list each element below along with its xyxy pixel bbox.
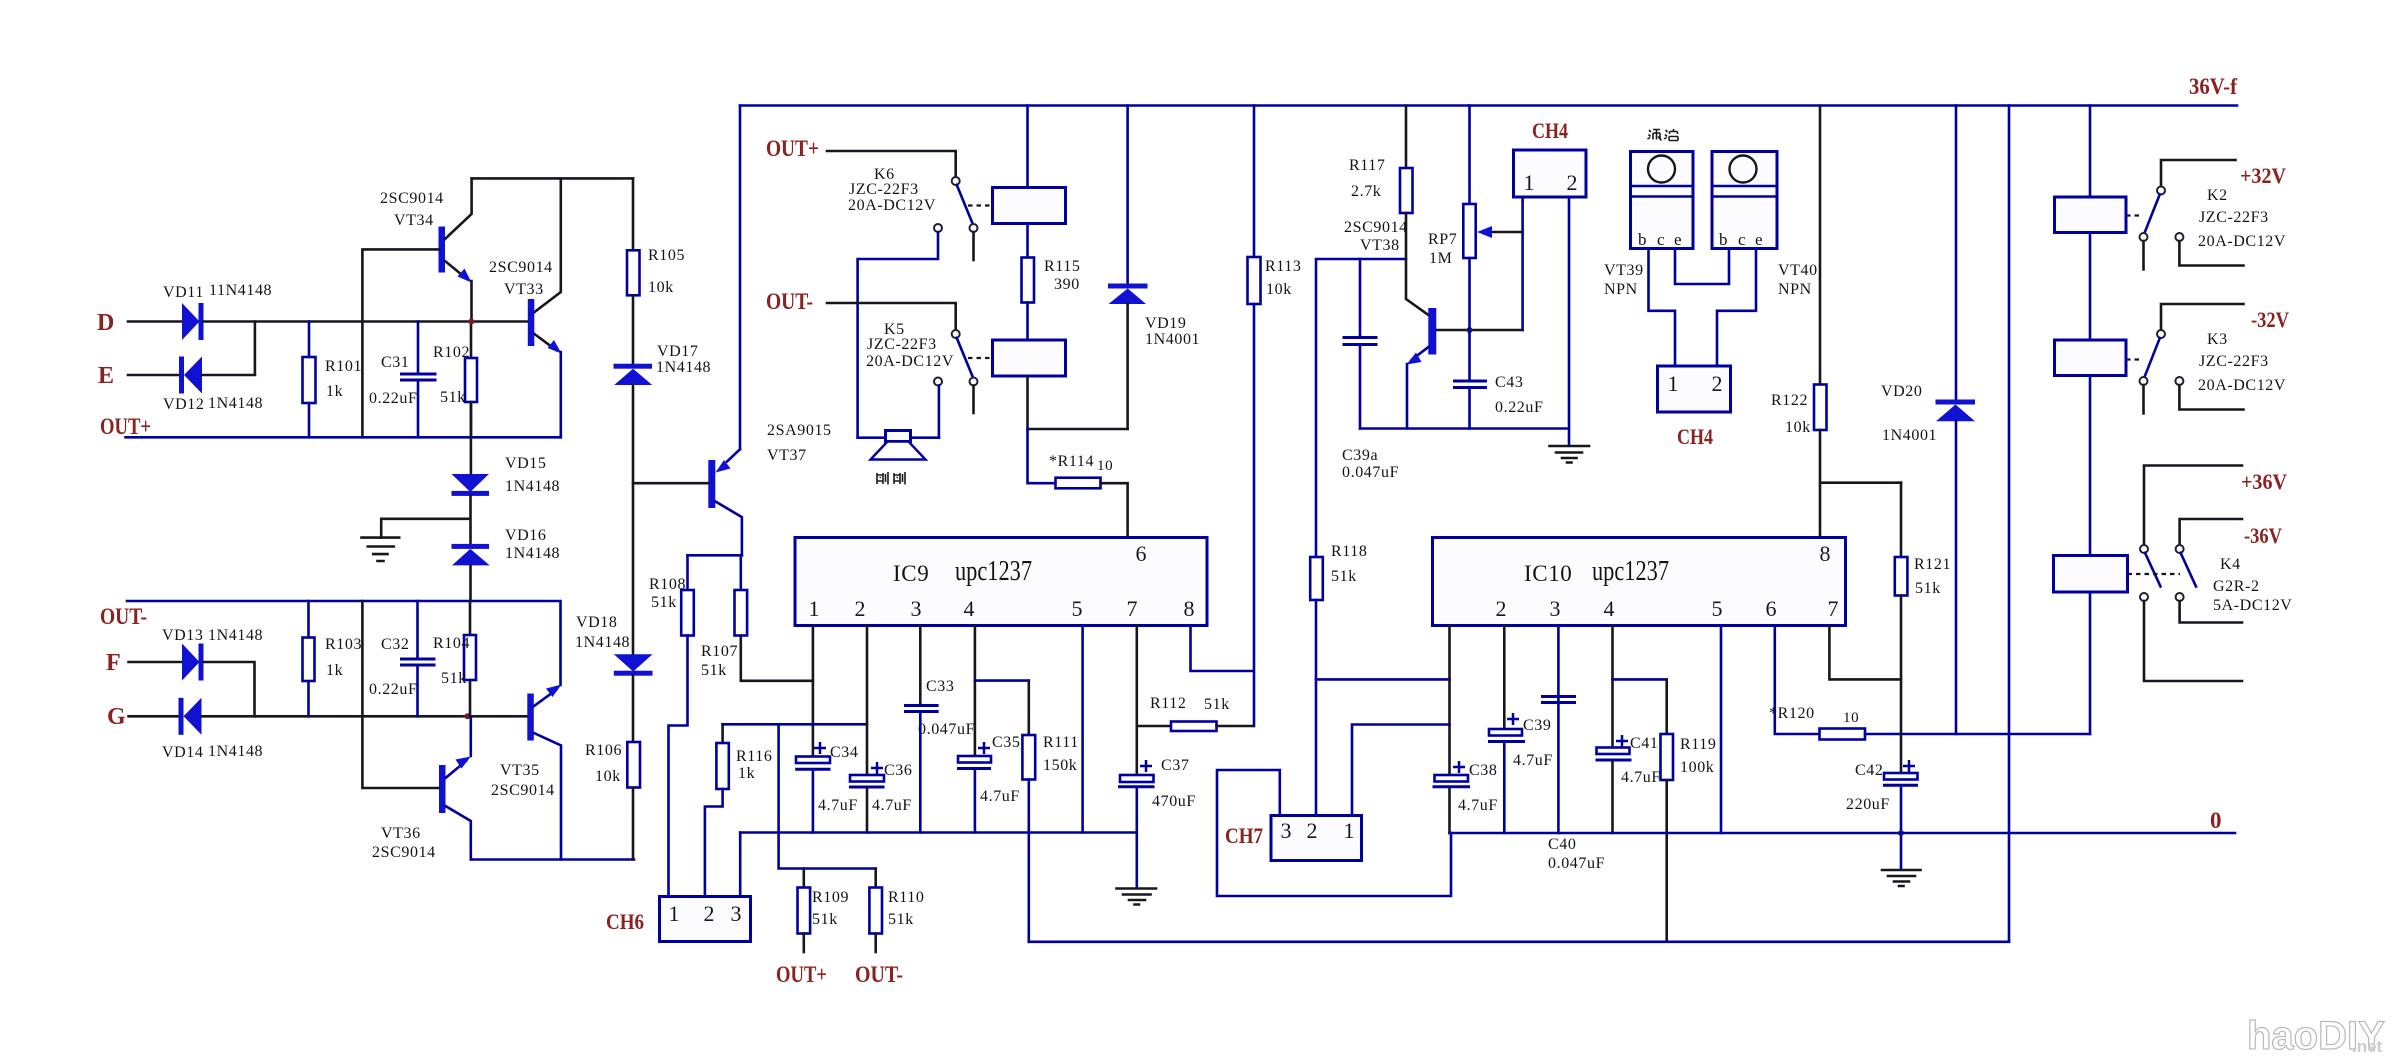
svg-text:-36V: -36V — [2244, 523, 2282, 548]
svg-text:C39a: C39a — [1342, 447, 1378, 464]
svg-text:E: E — [98, 363, 114, 389]
svg-text:3: 3 — [911, 596, 922, 621]
svg-text:VT37: VT37 — [767, 447, 807, 464]
transistor VT35 — [527, 694, 534, 741]
svg-text:51k: 51k — [888, 911, 914, 928]
svg-text:R117: R117 — [1349, 157, 1385, 174]
svg-text:VT38: VT38 — [1360, 237, 1400, 254]
wire CH7 pin3 loop — [1217, 770, 1451, 896]
svg-text:D: D — [97, 310, 114, 336]
svg-text:5: 5 — [1712, 596, 1723, 621]
transistor VT33 — [528, 299, 535, 346]
op-amp IC9 upc1237 — [795, 538, 1207, 626]
svg-text:0.22uF: 0.22uF — [1495, 399, 1544, 416]
SEC3 — [1310, 106, 2009, 942]
wire base tie — [1316, 259, 1406, 557]
pin 2 IC10 net — [1503, 626, 1506, 730]
svg-text:C39: C39 — [1523, 717, 1551, 734]
transistor VT34 — [439, 227, 446, 273]
svg-text:R119: R119 — [1680, 736, 1716, 753]
svg-text:VT33: VT33 — [504, 281, 544, 298]
svg-text:0.22uF: 0.22uF — [369, 390, 418, 407]
svg-text:K2: K2 — [2207, 187, 2228, 204]
svg-text:3: 3 — [1281, 818, 1292, 843]
svg-text:1k: 1k — [326, 662, 343, 679]
svg-text:R112: R112 — [1150, 695, 1186, 712]
svg-text:6: 6 — [1766, 596, 1777, 621]
wire — [827, 303, 956, 331]
resistor R111 — [1028, 681, 1031, 735]
svg-text:1: 1 — [669, 901, 680, 926]
svg-text:390: 390 — [1054, 276, 1080, 293]
svg-text:51k: 51k — [1915, 580, 1941, 597]
diode VD19 — [1126, 106, 1129, 285]
svg-text:4: 4 — [964, 596, 975, 621]
wire OUT- rail — [127, 601, 561, 685]
svg-text:150k: 150k — [1043, 757, 1077, 774]
label 喇叭 — [877, 472, 905, 485]
connector CH6 — [660, 897, 751, 942]
diode VD14 — [179, 698, 184, 735]
wire — [129, 661, 183, 664]
svg-text:e: e — [1674, 230, 1682, 249]
svg-text:470uF: 470uF — [1152, 793, 1196, 810]
svg-text:VD17: VD17 — [657, 343, 699, 360]
svg-text:10: 10 — [1843, 710, 1859, 726]
sensor VT40 — [1712, 152, 1777, 249]
svg-text:OUT+: OUT+ — [776, 962, 827, 987]
pin 4 net — [974, 626, 977, 757]
resistor R110 — [874, 869, 877, 888]
svg-text:NPN: NPN — [1604, 281, 1638, 298]
svg-text:R105: R105 — [648, 247, 685, 264]
svg-text:2SC9014: 2SC9014 — [1344, 219, 1408, 236]
svg-text:51k: 51k — [1204, 696, 1230, 713]
svg-text:10: 10 — [1097, 458, 1113, 474]
wire — [632, 385, 635, 654]
svg-text:1: 1 — [1344, 818, 1355, 843]
capacitor C33 — [904, 706, 939, 712]
svg-text:0.047uF: 0.047uF — [1342, 464, 1399, 481]
resistor R116 — [721, 724, 724, 743]
transistor VT38 — [1406, 213, 1429, 315]
svg-text:e: e — [1755, 230, 1763, 249]
svg-text:4.7uF: 4.7uF — [980, 788, 1020, 805]
svg-text:2: 2 — [855, 596, 866, 621]
svg-text:C34: C34 — [830, 744, 858, 761]
svg-text:2SC9014: 2SC9014 — [372, 844, 436, 861]
pin 5 IC10 net — [1720, 626, 1723, 834]
svg-text:+36V: +36V — [2241, 469, 2287, 494]
wires sensor to CH4 — [1649, 249, 1676, 367]
svg-text:51k: 51k — [441, 670, 467, 687]
wire CH6 pin3 — [739, 833, 742, 897]
svg-text:20A-DC12V: 20A-DC12V — [866, 353, 954, 370]
svg-text:1N4148: 1N4148 — [208, 627, 263, 644]
svg-text:1: 1 — [1524, 170, 1535, 195]
capacitor C37 — [1120, 775, 1154, 782]
svg-text:51k: 51k — [1331, 568, 1357, 585]
svg-text:OUT-: OUT- — [766, 289, 813, 314]
svg-text:C38: C38 — [1469, 762, 1497, 779]
svg-text:CH4: CH4 — [1677, 424, 1713, 449]
wire base — [1436, 329, 1522, 332]
svg-text:1N4001: 1N4001 — [1882, 427, 1937, 444]
svg-text:0.047uF: 0.047uF — [1548, 855, 1605, 872]
wire 0 bus — [1450, 832, 2236, 835]
svg-text:C32: C32 — [381, 636, 409, 653]
capacitor C34 — [796, 757, 830, 764]
wire bottom rail — [1029, 940, 2009, 943]
svg-text:VD20: VD20 — [1881, 383, 1923, 400]
svg-text:R108: R108 — [649, 576, 686, 593]
pin 8 net — [1191, 626, 1254, 672]
op-amp IC10 upc1237 — [1433, 538, 1846, 626]
svg-text:20A-DC12V: 20A-DC12V — [2198, 377, 2286, 394]
diode VD20 — [1955, 106, 1958, 401]
relay K2 — [2161, 160, 2236, 187]
svg-text:R106: R106 — [585, 742, 622, 759]
label 测温 — [1648, 129, 1679, 141]
svg-text:1k: 1k — [738, 765, 755, 782]
svg-text:VT36: VT36 — [381, 825, 421, 842]
svg-text:R101: R101 — [325, 358, 362, 375]
svg-text:VD12: VD12 — [163, 396, 205, 413]
ground — [1117, 889, 1157, 905]
svg-text:4.7uF: 4.7uF — [818, 797, 858, 814]
resistor R114 — [1056, 478, 1101, 489]
wire — [204, 320, 530, 323]
resistor R112 — [1137, 725, 1171, 728]
svg-text:R121: R121 — [1914, 556, 1951, 573]
svg-text:IC9: IC9 — [893, 561, 929, 586]
relay K3 — [2161, 304, 2244, 330]
potentiometer RP7 — [1468, 106, 1471, 205]
pin 5 net — [1081, 626, 1084, 833]
svg-text:20A-DC12V: 20A-DC12V — [2198, 233, 2286, 250]
wire bottom rail — [471, 858, 634, 861]
wire K5 coil to VD19 — [1028, 376, 1128, 429]
svg-text:51k: 51k — [812, 911, 838, 928]
svg-text:2SA9015: 2SA9015 — [767, 422, 832, 439]
svg-text:8: 8 — [1184, 596, 1195, 621]
svg-text:b: b — [1719, 230, 1728, 249]
svg-text:36V-f: 36V-f — [2189, 74, 2237, 99]
SEC4 — [1029, 106, 2385, 1059]
relay K5 coil — [993, 340, 1066, 376]
svg-text:1N4148: 1N4148 — [575, 634, 630, 651]
svg-text:6: 6 — [1136, 541, 1147, 566]
pin 7 IC10 net — [1829, 626, 1901, 680]
wire — [204, 662, 255, 716]
svg-text:JZC-22F3: JZC-22F3 — [2199, 353, 2269, 370]
svg-text:5: 5 — [1072, 596, 1083, 621]
svg-text:R102: R102 — [433, 344, 470, 361]
wire long drop — [2008, 106, 2011, 942]
resistor R109 — [802, 869, 805, 888]
svg-text:1k: 1k — [326, 383, 343, 400]
pin 2 net — [866, 626, 869, 776]
svg-text:OUT+: OUT+ — [766, 136, 819, 161]
svg-text:b: b — [1638, 230, 1647, 249]
svg-text:1N4001: 1N4001 — [1145, 331, 1200, 348]
svg-text:2: 2 — [1496, 596, 1507, 621]
svg-text:G2R-2: G2R-2 — [2213, 578, 2260, 595]
svg-text:R116: R116 — [736, 748, 772, 765]
svg-text:20A-DC12V: 20A-DC12V — [848, 197, 936, 214]
svg-text:4.7uF: 4.7uF — [1621, 769, 1661, 786]
diode VD18 — [614, 654, 653, 671]
wire G line — [202, 715, 528, 718]
svg-text:C33: C33 — [926, 678, 954, 695]
svg-text:VD13: VD13 — [162, 627, 204, 644]
svg-text:R109: R109 — [812, 889, 849, 906]
svg-text:JZC-22F3: JZC-22F3 — [849, 181, 919, 198]
wire 36V-f top rail — [740, 104, 2237, 107]
relay K6 coil — [993, 188, 1066, 224]
svg-text:VT40: VT40 — [1778, 262, 1818, 279]
svg-text:R110: R110 — [888, 889, 924, 906]
svg-text:NPN: NPN — [1778, 281, 1812, 298]
svg-text:1N4148: 1N4148 — [208, 395, 263, 412]
capacitor C40 — [1541, 697, 1576, 703]
svg-text:F: F — [106, 650, 121, 676]
wire R116 bus — [723, 723, 867, 726]
svg-text:CH4: CH4 — [1532, 118, 1568, 143]
transistor VT37 — [708, 460, 715, 508]
pin 6 IC10 net / resistor R120 — [1775, 626, 1820, 735]
svg-text:JZC-22F3: JZC-22F3 — [867, 336, 937, 353]
svg-text:C42: C42 — [1855, 762, 1883, 779]
svg-text:C40: C40 — [1548, 836, 1576, 853]
svg-text:1M: 1M — [1429, 250, 1452, 267]
diode VD16 — [452, 544, 490, 549]
wire CH4 pin2 + ground — [1568, 197, 1571, 445]
svg-text:2: 2 — [1307, 818, 1318, 843]
svg-text:2SC9014: 2SC9014 — [489, 259, 553, 276]
transistor VT36 — [439, 765, 446, 813]
capacitor C38 — [1435, 775, 1469, 782]
svg-text:51k: 51k — [701, 662, 727, 679]
svg-text:8: 8 — [1820, 541, 1831, 566]
svg-text:CH7: CH7 — [1225, 823, 1263, 848]
svg-text:upc1237: upc1237 — [955, 556, 1032, 587]
svg-text:VT35: VT35 — [500, 762, 540, 779]
resistor R117 — [1405, 106, 1408, 169]
wire R109/R110 feed — [779, 724, 876, 868]
svg-text:VT34: VT34 — [394, 212, 434, 229]
svg-text:1N4148: 1N4148 — [505, 545, 560, 562]
sensor VT39 — [1631, 152, 1694, 249]
relay K5 contact — [952, 330, 960, 338]
resistor R106 — [632, 676, 635, 742]
svg-text:10k: 10k — [648, 279, 674, 296]
svg-text:R118: R118 — [1331, 543, 1367, 560]
svg-text:c: c — [1738, 230, 1746, 249]
resistor R107 — [739, 555, 742, 590]
svg-text:VD14: VD14 — [162, 744, 204, 761]
diode VD15 — [470, 402, 473, 474]
svg-text:RP7: RP7 — [1428, 231, 1457, 248]
resistor R113 — [1253, 106, 1256, 258]
svg-text:0.047uF: 0.047uF — [918, 721, 975, 738]
svg-text:7: 7 — [1127, 596, 1138, 621]
svg-text:*R114: *R114 — [1049, 453, 1094, 470]
svg-text:R113: R113 — [1265, 258, 1301, 275]
wire — [128, 374, 180, 377]
diode VD12 — [179, 357, 184, 394]
wire emitter junction — [688, 554, 742, 557]
svg-text:R122: R122 — [1771, 392, 1808, 409]
svg-text:OUT-: OUT- — [100, 604, 147, 629]
svg-text:R115: R115 — [1044, 258, 1080, 275]
capacitor C32 — [416, 601, 419, 716]
capacitor C31 — [417, 322, 420, 438]
resistor R118 — [1310, 557, 1323, 600]
svg-text:VT39: VT39 — [1604, 262, 1644, 279]
svg-text:4: 4 — [1604, 596, 1615, 621]
wire — [129, 715, 180, 718]
svg-text:3: 3 — [1550, 596, 1561, 621]
svg-text:R111: R111 — [1043, 734, 1079, 751]
svg-text:R107: R107 — [701, 643, 738, 660]
svg-text:*R120: *R120 — [1769, 705, 1815, 722]
resistor R101 — [308, 322, 311, 438]
svg-text:10k: 10k — [595, 768, 621, 785]
svg-text:C41: C41 — [1630, 735, 1658, 752]
svg-text:VD16: VD16 — [505, 527, 547, 544]
svg-text:IC10: IC10 — [1524, 561, 1572, 586]
connector CH4 (bottom) — [1658, 366, 1731, 412]
relay K6 contact — [952, 177, 960, 185]
wire — [128, 320, 182, 323]
resistor R104 — [469, 601, 472, 716]
resistor R102 — [470, 322, 473, 438]
svg-text:VD11: VD11 — [163, 284, 204, 301]
svg-text:5A-DC12V: 5A-DC12V — [2213, 597, 2292, 614]
svg-text:C37: C37 — [1161, 757, 1189, 774]
pin 7 net — [1136, 626, 1139, 776]
wire — [202, 322, 255, 376]
pin 1 IC10 net — [1448, 626, 1451, 776]
resistor R105 — [632, 178, 635, 250]
ground — [381, 496, 470, 544]
resistor R115 — [1022, 258, 1035, 303]
svg-text:2.7k: 2.7k — [1351, 183, 1381, 200]
svg-text:CH6: CH6 — [606, 909, 644, 934]
svg-text:+32V: +32V — [2240, 163, 2286, 188]
svg-text:100k: 100k — [1680, 759, 1714, 776]
svg-text:10k: 10k — [1785, 419, 1811, 436]
svg-text:R103: R103 — [325, 636, 362, 653]
pin 4 IC10 net — [1611, 626, 1614, 746]
diode VD13 — [182, 644, 200, 681]
svg-text:-32V: -32V — [2251, 307, 2289, 332]
svg-text:10k: 10k — [1266, 281, 1292, 298]
pin 3 IC10 net — [1557, 626, 1560, 834]
wire CH4 pin1 — [1521, 197, 1524, 330]
capacitor C36 — [850, 775, 884, 782]
diode VD17 — [632, 295, 635, 364]
svg-text:C31: C31 — [381, 354, 409, 371]
wire top-left rail — [472, 177, 633, 180]
svg-text:4.7uF: 4.7uF — [1458, 797, 1498, 814]
resistor R108 — [686, 555, 689, 590]
svg-text:VD15: VD15 — [505, 455, 547, 472]
resistor R121 — [1900, 483, 1903, 557]
resistor R103 — [307, 601, 310, 716]
svg-text:2SC9014: 2SC9014 — [380, 190, 444, 207]
svg-text:1: 1 — [809, 596, 820, 621]
capacitor C41 — [1597, 748, 1630, 755]
svg-text:1N4148: 1N4148 — [505, 478, 560, 495]
svg-text:0: 0 — [2210, 808, 2222, 833]
connector CH7 — [1271, 816, 1362, 861]
svg-text:C35: C35 — [992, 734, 1020, 751]
svg-text:51k: 51k — [440, 389, 466, 406]
ground — [1882, 870, 1921, 886]
svg-text:c: c — [1657, 230, 1665, 249]
svg-text:2: 2 — [1712, 371, 1723, 396]
svg-text:R104: R104 — [433, 635, 470, 652]
svg-text:C43: C43 — [1495, 374, 1523, 391]
wire OUT+ rail — [126, 436, 561, 439]
svg-text:G: G — [107, 704, 126, 730]
svg-text:.net: .net — [2352, 1037, 2383, 1056]
wire ground bus — [740, 831, 1137, 834]
svg-text:220uF: 220uF — [1846, 796, 1890, 813]
svg-text:7: 7 — [1828, 596, 1839, 621]
capacitor C39 — [1489, 729, 1522, 736]
svg-text:4.7uF: 4.7uF — [1513, 752, 1553, 769]
svg-text:1: 1 — [1668, 371, 1679, 396]
svg-text:4.7uF: 4.7uF — [872, 797, 912, 814]
capacitor C35 — [958, 756, 991, 763]
svg-text:VD18: VD18 — [576, 614, 618, 631]
svg-text:2: 2 — [704, 901, 715, 926]
svg-text:OUT-: OUT- — [855, 962, 903, 987]
wire — [827, 151, 956, 178]
svg-text:1N4148: 1N4148 — [656, 359, 711, 376]
svg-text:JZC-22F3: JZC-22F3 — [2199, 209, 2269, 226]
svg-text:0.22uF: 0.22uF — [369, 681, 418, 698]
pin 1 net — [812, 626, 815, 757]
wire R118 to IC10 pin1 — [1316, 678, 1450, 681]
svg-text:C36: C36 — [884, 762, 912, 779]
SEC2 — [606, 538, 1254, 988]
svg-text:upc1237: upc1237 — [1592, 556, 1669, 587]
svg-text:OUT+: OUT+ — [100, 414, 151, 439]
svg-text:VD19: VD19 — [1145, 315, 1187, 332]
diode VD11 — [182, 303, 200, 340]
resistor R122 — [1819, 106, 1822, 385]
svg-text:2SC9014: 2SC9014 — [491, 782, 555, 799]
svg-text:51k: 51k — [651, 594, 677, 611]
svg-text:11N4148: 11N4148 — [209, 282, 272, 299]
connector CH4 (top) — [1514, 150, 1587, 197]
capacitor C39a — [1359, 259, 1362, 429]
pin 3 net — [919, 626, 922, 706]
capacitor C43 — [1453, 381, 1487, 388]
svg-text:1N4148: 1N4148 — [208, 743, 263, 760]
svg-text:2: 2 — [1567, 170, 1578, 195]
wire VT38 bottom — [1360, 427, 1569, 430]
svg-text:3: 3 — [731, 901, 742, 926]
SEC1 — [740, 74, 2237, 726]
relay K4 — [2144, 466, 2242, 546]
svg-text:K3: K3 — [2207, 331, 2228, 348]
capacitor C42 — [1884, 773, 1918, 780]
